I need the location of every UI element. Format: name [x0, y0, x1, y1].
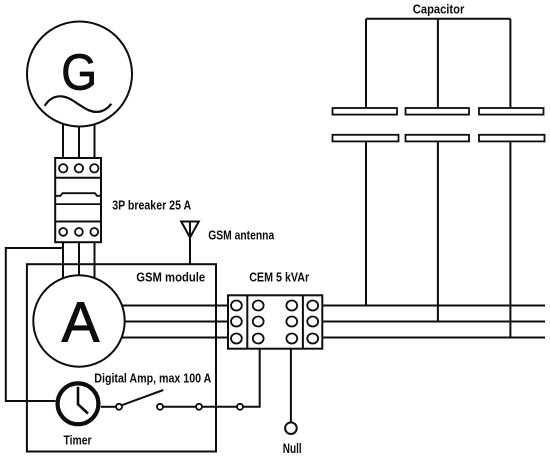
capacitor C2 top plate	[406, 108, 470, 115]
wire breaker to ammeter phase L1	[62, 242, 64, 278]
wire timer to switch contact 1	[101, 406, 116, 408]
antenna W1 mast wire	[189, 223, 191, 265]
switch contact 4	[237, 404, 243, 410]
wire ammeter to CEM phase L1	[122, 305, 228, 307]
wire CEM to capacitors phase L2	[322, 321, 545, 323]
antenna W1 triangle	[181, 222, 199, 238]
svg-text:Capacitor: Capacitor	[413, 2, 465, 17]
svg-text:3P breaker 25 A: 3P breaker 25 A	[112, 198, 191, 213]
timer KT1 hour hand	[78, 404, 89, 414]
CEM terminal B3	[253, 334, 264, 344]
wire capacitor C2 top lead	[437, 19, 439, 108]
wire capacitor C3 bottom lead to L3	[509, 141, 511, 337]
CEM terminal C2	[286, 317, 297, 327]
wire generator phase L1 to breaker	[62, 124, 64, 158]
CEM terminal A2	[231, 317, 242, 327]
CEM terminal A1	[231, 301, 242, 311]
breaker QF1 top terminal strip divider	[55, 177, 101, 179]
wire generator phase L2 to breaker	[78, 126, 80, 158]
generator G1 sine symbol	[45, 96, 112, 112]
generator G1 circle	[27, 22, 132, 127]
breaker QF1 toggle handle	[55, 193, 101, 196]
wire contact 3 to contact 4	[202, 406, 237, 408]
CEM terminal C3	[286, 334, 297, 344]
switch contact 1	[116, 404, 122, 410]
svg-text:GSM antenna: GSM antenna	[208, 229, 275, 243]
wire CEM to capacitors phase L3	[322, 337, 545, 339]
wire capacitor C2 bottom lead to L2	[437, 141, 439, 321]
capacitor C3 bottom plate	[479, 135, 545, 142]
wire generator phase L3 to breaker	[94, 125, 96, 158]
wire capacitor top bus	[366, 18, 510, 20]
capacitor C2 bottom plate	[406, 135, 470, 142]
switch contact 2	[157, 404, 163, 410]
svg-text:GSM module: GSM module	[136, 271, 205, 285]
ammeter PA1 circle	[33, 275, 124, 366]
node Null terminal	[285, 422, 297, 434]
timer KT1 body	[58, 383, 99, 424]
switch contact 3	[196, 404, 202, 410]
switch open blade	[122, 390, 164, 405]
wire contact 4 to CEM terminal	[243, 349, 260, 407]
breaker QF1 top terminal 1	[59, 164, 67, 172]
svg-text:Timer: Timer	[64, 432, 92, 447]
capacitor C1 top plate	[333, 108, 398, 115]
CEM terminal A3	[231, 334, 242, 344]
breaker QF1 outline	[55, 158, 101, 242]
CEM terminal D1	[307, 301, 318, 311]
svg-text:Digital Amp, max 100 A: Digital Amp, max 100 A	[94, 370, 211, 385]
CEM right divider	[302, 295, 304, 348]
wire capacitor C1 bottom lead to L1	[365, 141, 367, 305]
svg-text:G: G	[61, 43, 97, 100]
CEM terminal D2	[307, 317, 318, 327]
wire CEM to capacitors phase L1	[322, 305, 545, 307]
breaker QF1 top terminal 3	[90, 164, 98, 172]
GSM module box	[27, 264, 216, 451]
svg-text:CEM 5 kVAr: CEM 5 kVAr	[249, 271, 309, 285]
breaker QF1 bottom terminal 2	[75, 228, 83, 236]
timer KT1 minute hand	[77, 387, 80, 405]
CEM terminal B1	[253, 301, 264, 311]
wire breaker to ammeter phase L3	[94, 242, 96, 278]
wire timer supply loop from L1 junction	[6, 248, 63, 401]
svg-text:A: A	[62, 290, 100, 353]
CEM meter box	[228, 295, 322, 348]
wire capacitor C1 top lead	[365, 19, 367, 108]
CEM terminal B2	[253, 317, 264, 327]
CEM terminal C1	[286, 301, 297, 311]
wire breaker to ammeter phase L2	[78, 242, 80, 276]
wire capacitor C3 top lead	[509, 19, 511, 108]
wire ammeter to CEM phase L2	[125, 321, 228, 323]
CEM terminal D3	[307, 334, 318, 344]
wire CEM null stub	[290, 349, 292, 423]
wire contact 2 to contact 3	[163, 406, 196, 408]
breaker QF1 bottom terminal 3	[90, 228, 98, 236]
capacitor C3 top plate	[479, 108, 544, 115]
capacitor C1 bottom plate	[333, 135, 399, 142]
wire ammeter to CEM phase L3	[122, 337, 228, 339]
svg-text:Null: Null	[283, 441, 302, 456]
breaker QF1 bottom terminal 1	[59, 228, 67, 236]
CEM left divider	[246, 295, 248, 348]
breaker QF1 bottom terminal strip divider	[55, 221, 101, 223]
breaker QF1 toggle base line	[55, 203, 101, 205]
breaker QF1 top terminal 2	[75, 164, 83, 172]
